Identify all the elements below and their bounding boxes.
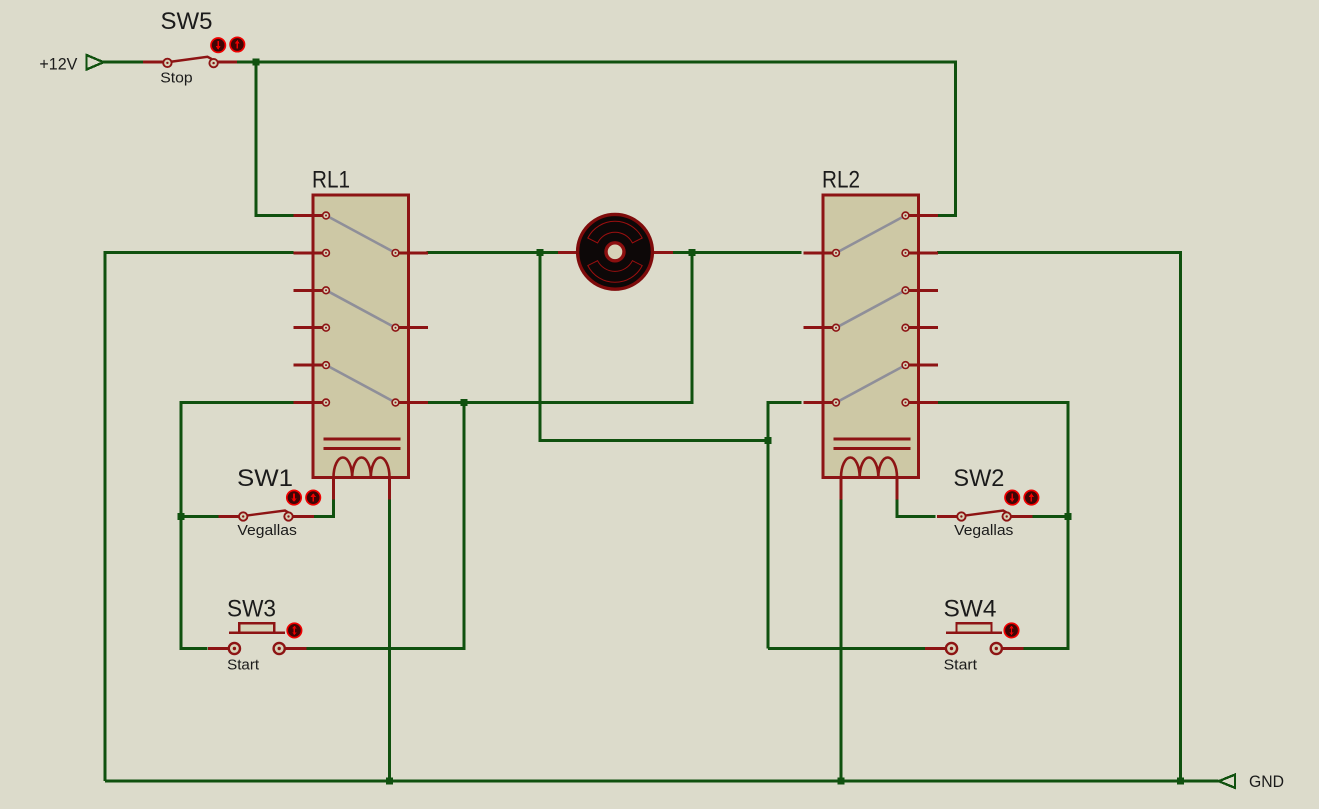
RL1 contact lever 3 [328,366,394,401]
RL1 pin row4 left [294,326,327,329]
wire SW3 to branch vertical [307,647,466,650]
wire motor line left of RL1 [104,251,294,254]
RL2 terminal row6 right [902,399,909,406]
switch SW1 [219,515,241,518]
motor body [578,214,653,289]
junction SW2 right net [1065,513,1072,520]
ground terminal GND [1219,775,1235,788]
motor commutator bottom [588,261,642,283]
wire SW4 right to corner [1023,647,1070,650]
RL2 coil core bars [834,438,911,441]
svg-text:SW3: SW3 [227,596,276,623]
RL2 pin row1 right [906,214,939,217]
wire left loop vertical [180,403,183,649]
svg-text:Start: Start [944,656,978,673]
RL2 pin row4 right [906,326,939,329]
RL2 terminal row1 right [902,212,909,219]
wire middle horizontal to RL2 loop [539,439,769,442]
SW5 actuator buttons [211,38,225,52]
wire corner to RL2 row6 left [767,401,802,404]
wire up to RL1 coil pin A [332,500,335,519]
svg-text:RL2: RL2 [822,167,860,194]
RL1 pin row5 left [294,364,327,367]
wire to SW4 left [768,647,926,650]
RL1 terminal row4 right [392,324,399,331]
RL1 contact lever 2 [328,291,394,326]
wire left loop to SW3 [180,647,208,650]
motor pins [558,251,577,254]
junction motor left [537,249,544,256]
RL2 terminal row4 left [833,324,840,331]
wire into RL2 row1 pin [937,214,957,217]
wire RL2 row2 to right rail [937,251,1182,254]
wire SW5 junction down to RL1 row1 [255,62,258,216]
RL2 coil winding [841,457,897,477]
RL1 pin row6 left [294,401,327,404]
svg-text:SW2: SW2 [953,465,1004,492]
RL1 pin row4 right [396,326,429,329]
wire left rail vertical [104,253,107,782]
svg-text:SW5: SW5 [161,8,213,35]
RL2 pin row2 left [804,251,837,254]
RL2 pin row6 left [804,401,837,404]
SW3 cap [229,632,285,635]
wire SW1 to RL1 coil corner [314,515,334,518]
RL1 pin row6 right [396,401,429,404]
pushbutton SW3 [208,647,230,650]
wire RL2 coil pin B down [896,500,899,519]
RL2 terminal row2 left [833,250,840,257]
power terminal +12V [87,55,104,70]
wire SW2 to right loop [1033,515,1069,518]
RL1 contact lever 1 [328,217,394,252]
motor commutator top [588,221,642,243]
wire RL1 coil pin B to bottom rail [388,500,391,782]
RL2 terminal row4 right [902,324,909,331]
svg-text:SW1: SW1 [237,465,293,492]
svg-text:RL1: RL1 [312,167,350,194]
relay RL2 body [823,195,919,478]
svg-text:Start: Start [227,656,260,673]
relay RL1 body [313,195,409,478]
RL2 pin row2 right [906,251,939,254]
RL1 terminal row6 right [392,399,399,406]
RL1 terminal row6 left [323,399,330,406]
wire left loop to RL1 row6 [180,401,294,404]
wire SW3 branch vertical [463,403,466,649]
RL2 terminal row5 right [902,362,909,369]
junction bottom rail RL2 coil [838,778,845,785]
svg-text:GND: GND [1249,773,1284,791]
SW4 cap [946,632,1002,635]
junction bottom rail RL1 coil [386,778,393,785]
RL1 pin row3 left [294,289,327,292]
junction RL1 row6 net [461,399,468,406]
RL1 coil winding [334,457,390,477]
RL2 pin row5 right [906,364,939,367]
svg-text:Vegallas: Vegallas [237,522,297,539]
wire motor-left junction down [539,253,542,441]
RL2 contact lever 1 [838,217,904,252]
wire right rail vertical [1179,253,1182,782]
RL2 contact lever 3 [838,366,904,401]
wire down to RL2 pin 1 [954,62,957,216]
RL2 pin row4 left [804,326,837,329]
RL1 coil pin left [332,478,335,500]
svg-text:Stop: Stop [160,70,192,87]
RL1 coil pin right [388,478,391,500]
wire RL2 loop vertical [767,403,770,649]
junction bottom rail right rail [1177,778,1184,785]
wire RL1 row6 to corner [427,401,694,404]
RL2 pin row6 right [906,401,939,404]
junction RL2 loop net [765,437,772,444]
wire top rail SW5 to RL2 side [237,61,957,64]
RL1 pin row2 right [396,251,429,254]
wire RL2 coil to SW2 [896,515,936,518]
SW3 actuator button [287,623,301,637]
RL1 terminal row2 left [323,250,330,257]
pushbutton SW4 [925,647,947,650]
switch SW5 [143,61,164,64]
RL1 terminal row1 left [323,212,330,219]
wire +12V to SW5 [103,61,143,64]
RL1 pin row2 left [294,251,327,254]
wire RL2 coil pin A to bottom rail [840,500,843,782]
RL2 coil pin right [896,478,899,500]
RL2 contact lever 2 [838,291,904,326]
wire RL1 row2 to motor [427,251,559,254]
wire RL2 row6 right to corner [937,401,1070,404]
switch SW2 [937,515,959,518]
SW1 actuator buttons [287,490,301,504]
RL1 terminal row5 left [323,362,330,369]
wire right loop vertical [1067,403,1070,649]
wire left loop to SW1 [181,515,219,518]
wire to RL1 row1 pin [255,214,294,217]
motor hub [606,243,624,261]
RL2 pin row3 right [906,289,939,292]
junction SW5 output [253,59,260,66]
RL2 terminal row6 left [833,399,840,406]
wire bottom rail to GND [105,780,1219,783]
RL1 coil core bars [324,438,401,441]
wire motor-right junction down [691,253,694,403]
RL1 pin row1 left [294,214,327,217]
RL2 terminal row3 right [902,287,909,294]
RL1 terminal row2 right [392,250,399,257]
junction motor right [689,249,696,256]
SW2 actuator buttons [1005,490,1019,504]
RL2 terminal row2 right [902,250,909,257]
junction SW1 left net [178,513,185,520]
wire motor to RL2 row2 [673,251,802,254]
SW4 actuator button [1004,623,1018,637]
svg-text:SW4: SW4 [944,596,997,623]
svg-text:+12V: +12V [39,56,77,74]
svg-text:Vegallas: Vegallas [954,522,1013,539]
RL1 terminal row3 left [323,287,330,294]
RL1 terminal row4 left [323,324,330,331]
RL2 coil pin left [840,478,843,500]
